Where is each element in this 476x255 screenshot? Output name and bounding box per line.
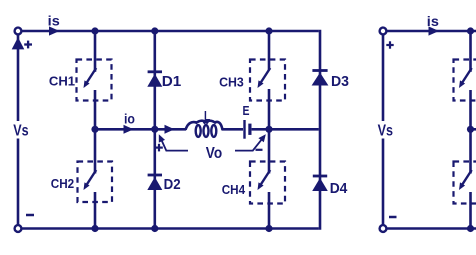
wire CH4 bottom segment	[268, 192, 271, 229]
chopper CH2 dashed box	[78, 162, 113, 203]
label is	[48, 12, 60, 28]
wire top bus	[22, 30, 319, 33]
junction node 8	[151, 225, 158, 232]
svg-text:Vs: Vs	[13, 123, 28, 140]
wire CH2 bottom segment	[94, 192, 97, 229]
junction node 2	[151, 27, 158, 34]
wire D2 branch	[154, 129, 157, 229]
chopper CH1 dashed box	[77, 60, 112, 101]
wire right rail	[319, 30, 322, 230]
svg-text:D2: D2	[164, 177, 181, 193]
wire D1 branch	[154, 31, 157, 129]
wire left source rail	[17, 34, 20, 225]
circuit2 junction node 1	[467, 27, 474, 34]
svg-text:D4: D4	[330, 181, 348, 197]
label CH2	[51, 176, 74, 191]
arrow load current	[165, 125, 175, 134]
circuit2 wire bottom bus	[387, 227, 476, 230]
junction node 3	[265, 27, 272, 34]
wire L to E	[222, 128, 244, 131]
circuit2 label is	[427, 13, 439, 29]
chopper CH2b dashed box	[454, 162, 476, 204]
svg-text:CH1: CH1	[49, 73, 75, 88]
chopper CH4 dashed box	[250, 162, 285, 204]
circuit2 label Vs	[378, 123, 393, 140]
junction node 7	[91, 225, 98, 232]
svg-text:CH4: CH4	[222, 182, 246, 197]
chopper CH2 switch arrow	[84, 170, 97, 190]
source plus sign	[24, 41, 32, 49]
svg-text:Vo: Vo	[206, 145, 222, 162]
junction node 6	[265, 126, 272, 133]
label CH3	[219, 74, 244, 89]
output minus leader arrow	[235, 134, 266, 150]
label E	[243, 103, 250, 118]
label D2	[164, 177, 181, 193]
output plus leader arrow	[159, 134, 188, 150]
label io	[124, 111, 135, 127]
circuit2 plus sign	[386, 41, 393, 48]
label D3	[331, 74, 349, 90]
output plus sign	[155, 144, 163, 152]
chopper CH3 switch arrow	[258, 68, 271, 88]
junction node 1	[91, 27, 98, 34]
svg-text:is: is	[48, 12, 60, 28]
junction node 5	[151, 126, 158, 133]
svg-text:CH2: CH2	[51, 176, 74, 191]
svg-text:CH3: CH3	[219, 74, 244, 89]
svg-text:D1: D1	[162, 74, 182, 90]
source Vs polarity arrow	[12, 37, 25, 49]
junction node 9	[265, 225, 272, 232]
chopper CH3 dashed box	[250, 60, 285, 101]
label CH1	[49, 73, 75, 88]
circuit2 wire chopper column	[469, 31, 472, 229]
svg-text:E: E	[243, 103, 250, 118]
arrow is current	[49, 26, 60, 35]
chopper CH1 switch arrow	[84, 68, 97, 88]
label D4	[330, 181, 348, 197]
circuit2 middle stub wire	[471, 128, 476, 131]
svg-text:L: L	[204, 108, 210, 123]
circuit2 arrow is current	[429, 26, 440, 35]
wire CH3 top segment	[268, 31, 271, 70]
chopper CH1b switch arrow	[459, 68, 472, 88]
chopper CH1b dashed box	[454, 60, 476, 101]
circuit2 source top terminal	[380, 28, 387, 35]
source Vs bottom terminal	[15, 225, 22, 232]
battery E	[245, 120, 250, 139]
wire bottom bus	[22, 227, 319, 230]
svg-text:io: io	[124, 111, 135, 127]
label D1	[162, 74, 182, 90]
chopper CH2b switch arrow	[459, 170, 472, 190]
wire CH2 top segment	[94, 129, 97, 173]
wire CH3 bottom segment	[268, 89, 271, 129]
svg-text:Vs: Vs	[378, 123, 393, 140]
wire io branch	[95, 128, 186, 131]
diode D1	[147, 72, 162, 87]
circuit2 wire top bus	[387, 30, 476, 33]
chopper CH4 switch arrow	[258, 170, 271, 190]
wire CH4 top segment	[268, 129, 271, 173]
svg-text:D3: D3	[331, 74, 349, 90]
circuit2 minus sign	[389, 216, 397, 219]
source Vs top terminal	[15, 28, 22, 35]
inductor L	[186, 121, 223, 137]
label Vo	[206, 145, 222, 162]
label L	[204, 108, 210, 123]
diode D2	[147, 175, 162, 190]
wire CH1 top segment	[94, 31, 97, 72]
output minus sign	[256, 149, 263, 151]
source minus sign	[26, 214, 34, 217]
label CH4	[222, 182, 246, 197]
circuit2 junction node 3	[467, 225, 474, 232]
label Vs	[13, 123, 28, 140]
diode D4	[312, 176, 328, 191]
arrow io current	[124, 125, 134, 134]
wire E to right rail	[252, 128, 319, 131]
junction node 4	[91, 126, 98, 133]
wire CH1 bottom segment	[94, 90, 97, 129]
circuit2 wire left source rail	[382, 34, 385, 225]
diode D3	[312, 71, 329, 86]
circuit2 junction node 2	[467, 126, 474, 133]
circuit2 source bottom terminal	[380, 225, 387, 232]
